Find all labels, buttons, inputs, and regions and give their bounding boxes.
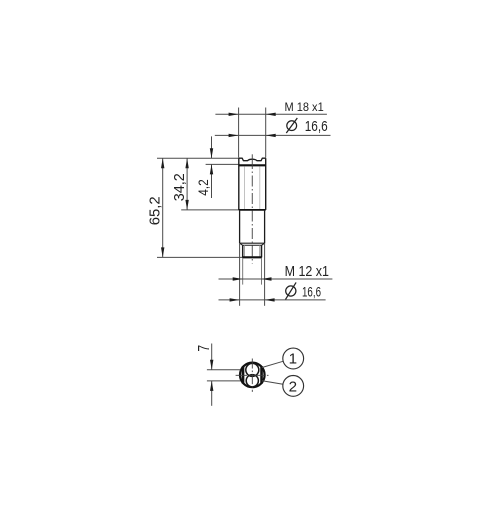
part front view: upper body sides (239, 158, 266, 210)
part front view: shoulder line (240, 242, 265, 244)
balloon 2 circle (283, 376, 304, 397)
part front view: chamfer edges (240, 243, 265, 245)
label M 12 x1 (285, 263, 329, 280)
bottom view: outer circle (240, 363, 265, 388)
extension line right of top dims (x=265.7) (265, 108, 267, 158)
diameter symbol (bottom) (286, 282, 297, 299)
centerline tick above cup (251, 154, 253, 158)
label 65,2 (rotated) (147, 196, 163, 225)
label 16,6 (top) (305, 119, 328, 135)
dimension line 4,2 (outside arrows) (210, 136, 213, 198)
balloon 2 label (289, 379, 297, 396)
extension line dia16,6 bottom left (239, 243, 241, 306)
bottom view: right flat (260, 366, 263, 383)
part front view: thread sides M12 (243, 245, 262, 257)
svg-text:M 12 x1: M 12 x1 (285, 263, 329, 280)
label 7 (rotated) (196, 345, 213, 352)
leader line to balloon 2 (262, 381, 283, 385)
extension line dia16,6 bottom right (264, 243, 266, 306)
extension line 34,2 lower reference (y=209.9) (181, 209, 239, 211)
diameter symbol (top) (286, 118, 297, 133)
bottom view: pin 1 circle (246, 363, 259, 376)
part front view: top cup profile (239, 158, 266, 161)
part front view: bold bottom face line (242, 256, 261, 258)
bottom view: pin 2 circle (246, 375, 258, 387)
extension line 7 upper (pin1 center) (207, 369, 240, 371)
leader line to balloon 1 (262, 361, 283, 367)
svg-text:4,2: 4,2 (195, 179, 211, 196)
extension line M12 left (gray) (242, 258, 244, 284)
label 34,2 (rotated) (172, 173, 188, 201)
svg-text:2: 2 (289, 379, 297, 396)
svg-text:65,2: 65,2 (147, 196, 163, 225)
dimension line 7 (outside arrows) (210, 344, 213, 406)
label M 18 x1 (285, 100, 324, 114)
extension line left of top dims (x=238.6) (238, 108, 240, 158)
svg-text:M 18 x1: M 18 x1 (285, 100, 324, 114)
balloon 1 label (289, 351, 297, 368)
label 16,6 (bottom) (302, 284, 321, 300)
extension line bottom reference (y=257.4) (157, 256, 243, 258)
svg-text:34,2: 34,2 (172, 173, 188, 201)
bottom view: horizontal centerline (236, 374, 269, 376)
extension line M12 right (gray) (261, 258, 263, 284)
extension line 4,2 lower reference (y=164.4) (206, 163, 239, 165)
centerline front view (vertical dash-dot) (251, 158, 253, 264)
svg-text:7: 7 (196, 345, 213, 352)
part front view: thin inner lines (thread core M18) (245, 167, 260, 210)
svg-text:16,6: 16,6 (302, 284, 321, 300)
part front view: thread top line (243, 244, 262, 246)
balloon 1 circle (283, 348, 304, 369)
label 4,2 (rotated) (195, 179, 211, 196)
part front view: bold top face line (239, 164, 266, 166)
bottom view: left flat (242, 366, 245, 383)
part front view: step line at 34,2 (239, 209, 266, 211)
dimension line M 12 x1 (219, 277, 333, 280)
dimension line 65,2 (161, 158, 164, 257)
svg-text:1: 1 (289, 351, 297, 368)
svg-text:16,6: 16,6 (305, 119, 328, 135)
dimension line 34,2 (185, 158, 188, 210)
dimension line diameter 16,6 (top) (215, 134, 331, 137)
part front view: lower body sides (240, 210, 265, 243)
dimension line diameter 16,6 (bottom) (219, 298, 326, 301)
extension line 7 lower (pin2 center) (207, 380, 240, 382)
part front view: thread core thin lines M12 (245, 245, 260, 256)
dimension line M 18 x1 (215, 113, 327, 116)
extension line top reference (y=158.2) (157, 157, 239, 159)
bottom view: vertical centerline (251, 359, 253, 392)
